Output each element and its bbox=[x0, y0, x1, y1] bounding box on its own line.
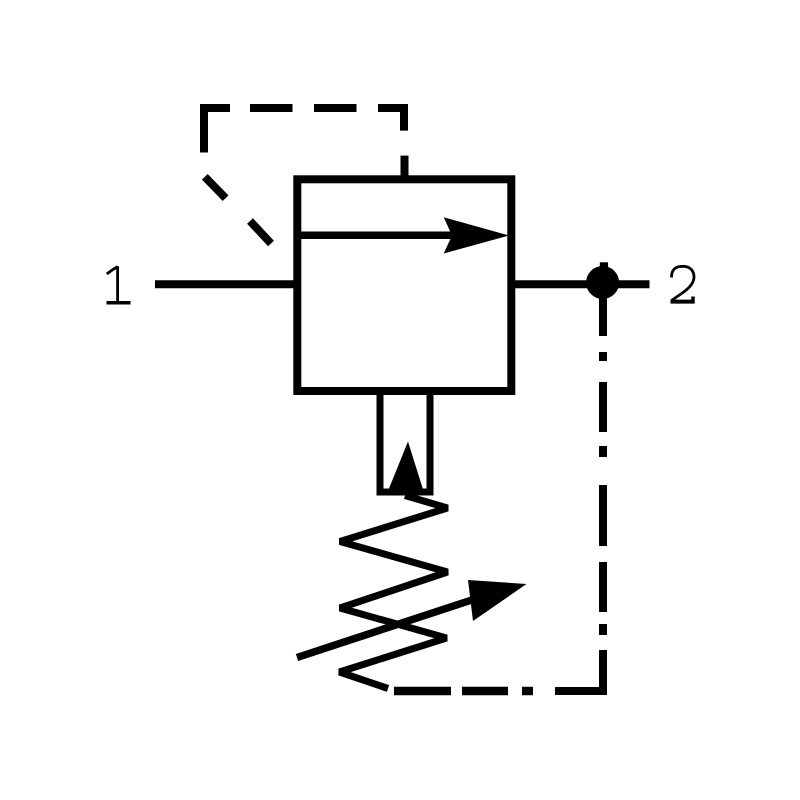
spring S1 bbox=[340, 496, 448, 689]
port label 1 bbox=[107, 266, 131, 303]
pilot line dash 2 bbox=[250, 104, 293, 112]
drain line dot 2 bbox=[599, 446, 607, 457]
pilot line dash 3 bbox=[314, 104, 357, 112]
spring seat arrowhead (upward) bbox=[388, 442, 424, 492]
drain line dash 5 bbox=[394, 687, 451, 696]
drain line dash 3 bbox=[599, 562, 607, 612]
pilot line diagonal dash a bbox=[205, 177, 226, 198]
flow path arrowhead bbox=[444, 217, 509, 253]
pilot line dashed: top-right corner dash bbox=[378, 108, 404, 131]
adjustment arrowhead bbox=[468, 580, 527, 621]
drain line dash 4 bbox=[462, 687, 508, 696]
wire port 2 bbox=[509, 280, 650, 288]
valve body envelope V1 bbox=[297, 179, 511, 391]
node junction dot at port 2 bbox=[586, 266, 619, 299]
drain line corner dash bbox=[555, 650, 603, 691]
adjustment arrow shaft bbox=[297, 594, 490, 658]
drain line dot 4 bbox=[522, 687, 533, 696]
pilot line vertical dash into valve body bbox=[401, 156, 409, 179]
drain line dot 1 bbox=[599, 352, 607, 361]
drain line tip dash above node bbox=[600, 262, 608, 267]
spring cage bbox=[380, 388, 430, 492]
wire port 1 bbox=[155, 280, 299, 288]
pilot line diagonal dash b bbox=[250, 221, 271, 244]
drain line dash-dot: stub below node bbox=[599, 290, 607, 336]
flow path arrow shaft bbox=[301, 232, 458, 240]
pilot line dashed: top-left corner dash bbox=[204, 108, 230, 153]
port label 2 bbox=[671, 266, 695, 303]
drain line dot 3 bbox=[599, 624, 607, 635]
drain line dash 2 bbox=[599, 485, 607, 546]
drain line dash 1 bbox=[599, 382, 607, 432]
